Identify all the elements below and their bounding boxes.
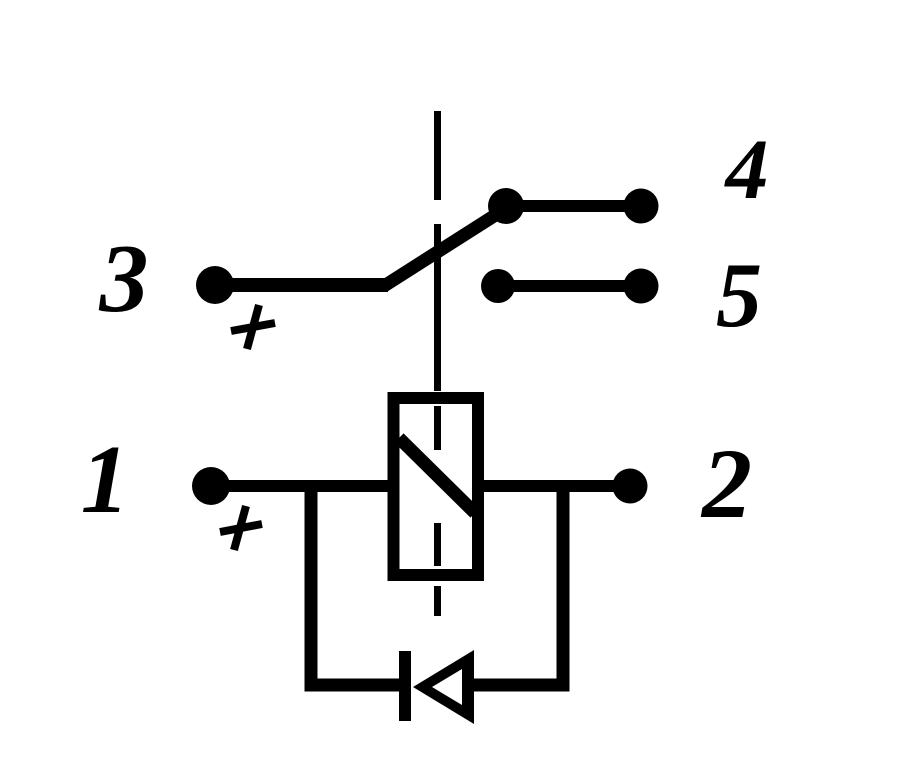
svg-text:2: 2	[700, 428, 752, 539]
svg-text:4: 4	[724, 121, 769, 217]
wire pin 3 to switch pivot	[213, 278, 388, 292]
relay coil rectangle	[394, 398, 479, 575]
terminal pin 3	[196, 266, 234, 304]
terminal pin 5 right	[624, 269, 659, 304]
diode cathode bar	[399, 651, 411, 721]
wire pin 4 contact row	[505, 200, 641, 212]
svg-text:3: 3	[99, 225, 149, 333]
wire right branch of diode loop	[468, 486, 563, 685]
polarity + near pin 3	[231, 305, 275, 349]
wire pin 5 contact row	[498, 280, 641, 292]
wire left branch of diode loop	[311, 486, 405, 685]
pin label 4	[724, 121, 769, 217]
svg-text:5: 5	[716, 244, 762, 346]
terminal pin 1	[192, 467, 230, 505]
pin label 5	[716, 244, 762, 346]
mechanical link (dashed line)	[434, 111, 441, 616]
terminal pin 4 contact left	[488, 188, 524, 224]
switch armature	[384, 207, 508, 286]
wire pin 1 to coil	[209, 480, 388, 492]
terminal pin 2	[613, 469, 648, 504]
pin label 1	[81, 426, 130, 533]
terminal pin 5 contact left	[481, 269, 515, 303]
pin label 3	[99, 225, 149, 333]
polarity + near pin 1	[220, 506, 262, 550]
svg-text:1: 1	[81, 426, 130, 533]
wire coil to pin 2	[484, 480, 630, 492]
pin label 2	[700, 428, 752, 539]
coil diagonal slash	[399, 438, 475, 513]
diode triangle (anode, pointing left)	[413, 650, 474, 724]
terminal pin 4 right	[624, 189, 659, 224]
